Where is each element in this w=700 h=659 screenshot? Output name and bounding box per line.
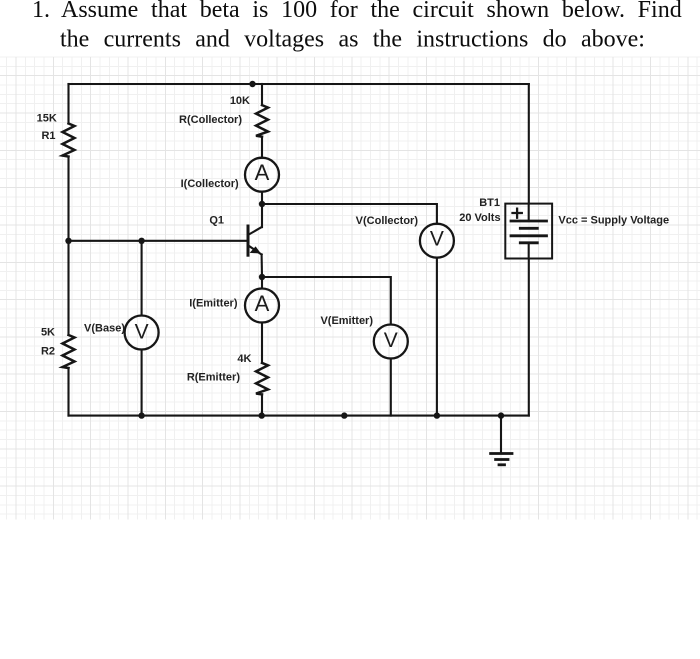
wire: R(Collector) top stub: [261, 84, 263, 105]
svg-text:R2: R2: [41, 346, 55, 358]
node: collector junction: [259, 201, 265, 207]
svg-text:I(Collector): I(Collector): [181, 178, 239, 190]
resistor R(Emitter) 4K zigzag: [256, 363, 268, 395]
svg-text:V(Emitter): V(Emitter): [320, 315, 373, 327]
svg-text:Q1: Q1: [209, 214, 224, 226]
node: rail/V(Collector) junction: [434, 412, 440, 418]
svg-text:the currents and voltages as t: the currents and voltages as the instruc…: [60, 27, 645, 53]
wire: collector node to transistor: [261, 204, 263, 227]
wire: base rail: [69, 240, 249, 242]
svg-text:V: V: [135, 321, 149, 344]
node: emitter junction: [259, 274, 265, 280]
ammeter I(Collector) circle: [245, 158, 279, 192]
svg-text:10K: 10K: [230, 95, 250, 107]
svg-text:R(Emitter): R(Emitter): [187, 371, 241, 383]
wire: V(Collector) to ground rail: [436, 258, 438, 416]
wire: I(Emitter) to R(Emitter): [261, 323, 263, 363]
wire: battery top drop: [528, 84, 530, 204]
svg-text:V: V: [384, 329, 398, 352]
svg-text:V(Base): V(Base): [84, 322, 125, 334]
wire: emitter node to I(Emitter): [261, 277, 263, 288]
svg-text:Vcc = Supply Voltage: Vcc = Supply Voltage: [558, 215, 669, 227]
wire: left branch above R1: [67, 84, 69, 124]
wire: emitter node to V(Emitter): [262, 277, 391, 324]
wire: V(Base) lower: [141, 350, 143, 416]
wire: V(Emitter) to ground rail: [390, 359, 392, 416]
node: rail/V(Base) junction: [138, 412, 144, 418]
svg-text:15K: 15K: [37, 112, 57, 124]
wire: battery to ground rail: [528, 259, 530, 416]
svg-text:BT1: BT1: [479, 197, 500, 209]
wire: top supply rail: [69, 83, 529, 85]
svg-text:R(Collector): R(Collector): [179, 114, 242, 126]
wire: bottom ground rail: [69, 415, 529, 417]
svg-text:I(Emitter): I(Emitter): [189, 297, 238, 309]
svg-text:A: A: [255, 291, 270, 316]
svg-text:V: V: [430, 228, 444, 251]
node: base rail left junction: [65, 238, 71, 244]
svg-text:20 Volts: 20 Volts: [459, 212, 500, 224]
resistor R(Collector) 10K zigzag: [256, 105, 268, 137]
voltmeter V(Emitter) circle: [374, 325, 408, 359]
svg-text:Assume that beta is 100 for th: Assume that beta is 100 for the circuit …: [61, 0, 682, 23]
svg-text:5K: 5K: [41, 327, 55, 339]
resistor R2 5K zigzag: [63, 335, 75, 368]
voltmeter V(Base) circle: [125, 316, 159, 350]
wire: left branch R1 to R2: [67, 157, 69, 336]
wire: ammeter to collector node: [261, 192, 263, 204]
wire: left branch R2 to rail: [67, 368, 69, 416]
svg-text:R1: R1: [41, 130, 55, 142]
voltmeter V(Collector) circle: [420, 224, 454, 258]
svg-text:V(Collector): V(Collector): [356, 215, 419, 227]
wire: R(Collector) to ammeter: [261, 137, 263, 158]
transistor Q1: [248, 225, 262, 257]
ground: [491, 416, 512, 465]
resistor R1 15K zigzag: [63, 124, 75, 157]
battery BT1: [505, 204, 552, 259]
node: base/V(Base) junction: [138, 238, 144, 244]
node: rail/R(Emitter) junction: [259, 412, 265, 418]
wire: emitter to node: [261, 255, 263, 278]
node: rail junction: [341, 412, 347, 418]
node: rail/ground junction: [498, 412, 504, 418]
svg-text:A: A: [255, 160, 270, 185]
svg-text:1.: 1.: [32, 0, 50, 23]
wire: collector node to V(Collector): [262, 204, 437, 224]
node: supply/R(Collector) junction: [249, 81, 255, 87]
svg-text:4K: 4K: [237, 353, 251, 365]
ammeter I(Emitter) circle: [245, 289, 279, 323]
wire: R(Emitter) to rail: [261, 394, 263, 415]
wire: V(Base) upper: [141, 241, 143, 316]
